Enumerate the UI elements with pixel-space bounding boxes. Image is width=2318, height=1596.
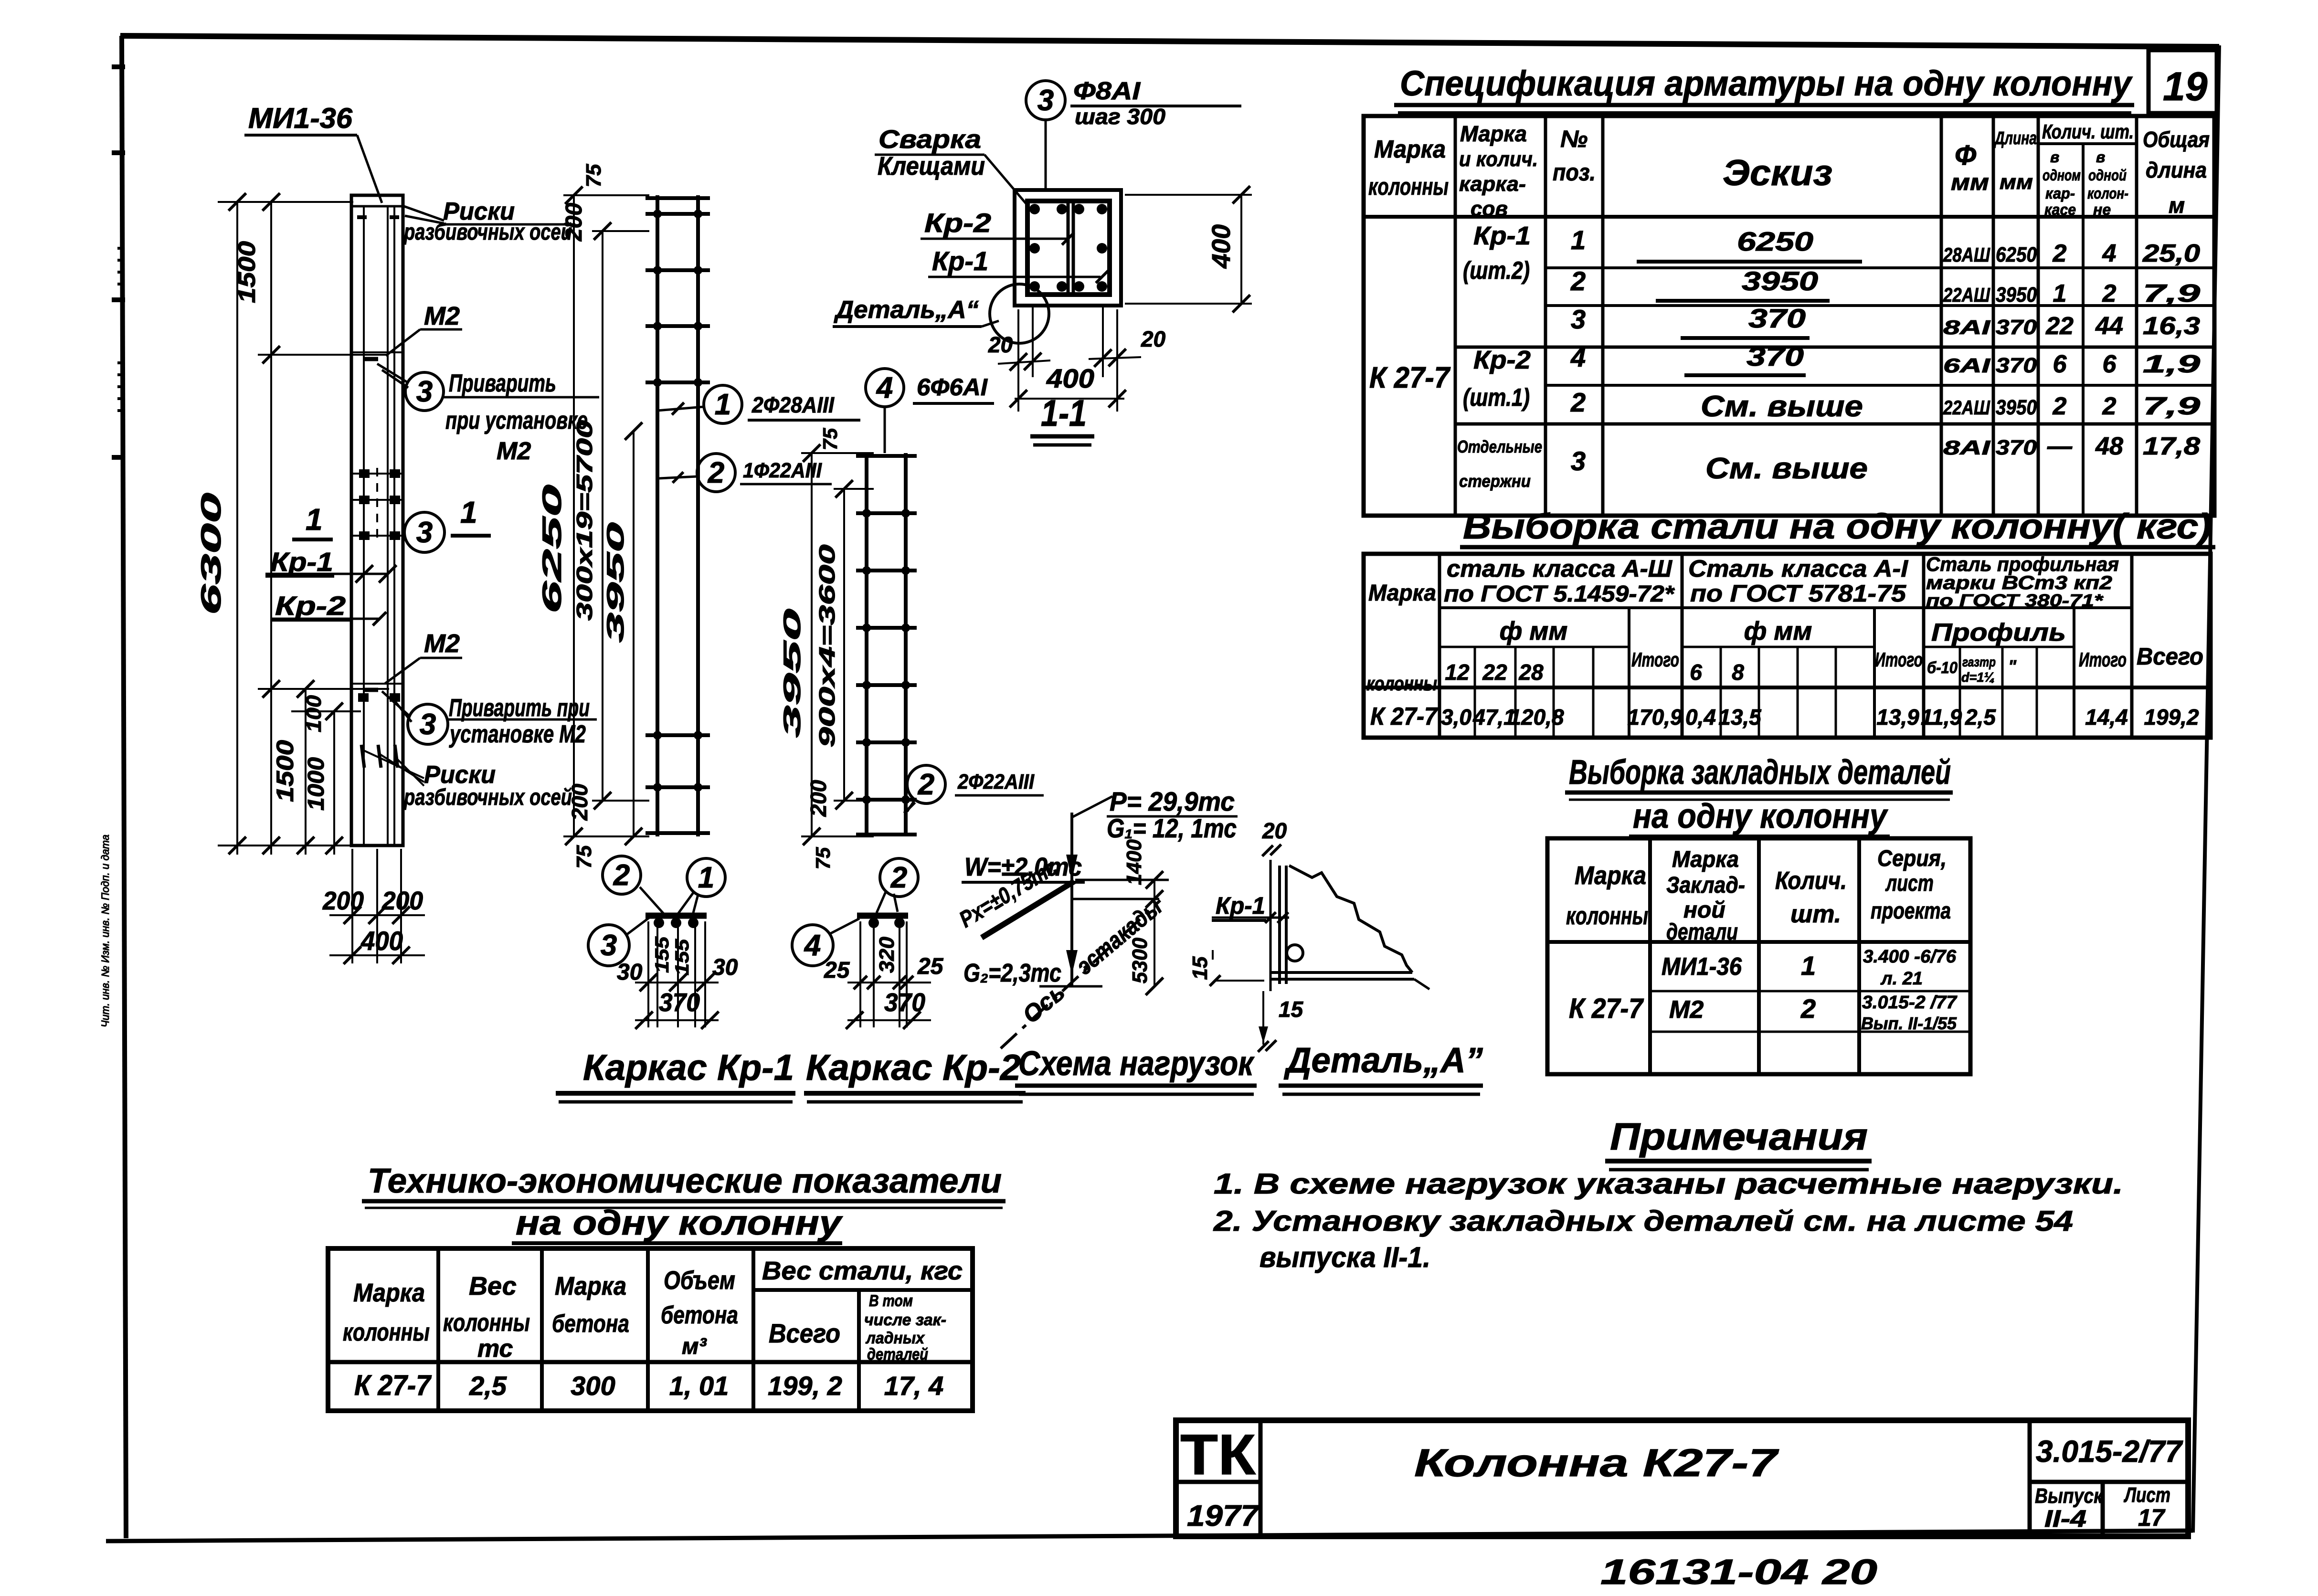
- svg-text:Примечания: Примечания: [1610, 1115, 1868, 1158]
- svg-text:4: 4: [2102, 240, 2117, 267]
- svg-text:3: 3: [416, 516, 433, 549]
- svg-text:Ф8АI: Ф8АI: [1073, 77, 1141, 105]
- svg-text:6: 6: [2103, 350, 2117, 378]
- svg-text:400: 400: [360, 926, 403, 956]
- svg-text:370: 370: [1746, 341, 1804, 371]
- svg-text:М2: М2: [1669, 996, 1704, 1024]
- svg-text:Сталь класса А-I: Сталь класса А-I: [1688, 555, 1908, 582]
- svg-text:(шт.2): (шт.2): [1463, 257, 1530, 285]
- svg-text:1,9: 1,9: [2143, 350, 2200, 378]
- svg-text:3.015-2 /77: 3.015-2 /77: [1862, 993, 1958, 1013]
- svg-text:400: 400: [1046, 363, 1094, 393]
- svg-text:199, 2: 199, 2: [768, 1371, 842, 1401]
- svg-text:400: 400: [1207, 224, 1236, 269]
- svg-text:3: 3: [416, 375, 433, 408]
- svg-text:Каркас Кр-2: Каркас Кр-2: [806, 1047, 1021, 1088]
- svg-text:ладных: ладных: [865, 1329, 925, 1347]
- svg-text:1: 1: [306, 502, 323, 537]
- svg-text:(шт.1): (шт.1): [1463, 384, 1530, 412]
- svg-text:2: 2: [708, 456, 724, 489]
- svg-text:Вып. II-1/55: Вып. II-1/55: [1861, 1014, 1957, 1033]
- svg-text:": ": [2008, 656, 2017, 676]
- svg-text:300x19=5700: 300x19=5700: [572, 420, 597, 621]
- svg-text:Деталь„А“: Деталь„А“: [834, 296, 979, 324]
- svg-text:4: 4: [804, 929, 821, 962]
- svg-text:№: №: [1560, 126, 1588, 152]
- svg-text:370: 370: [659, 988, 700, 1017]
- svg-text:Выборка закладных деталей: Выборка закладных деталей: [1569, 753, 1951, 792]
- svg-text:числе зак-: числе зак-: [864, 1311, 946, 1329]
- svg-text:1500: 1500: [272, 740, 298, 802]
- svg-text:48: 48: [2095, 433, 2123, 460]
- svg-text:6300: 6300: [196, 493, 227, 615]
- svg-text:шаг 300: шаг 300: [1075, 104, 1165, 129]
- svg-text:—: —: [2047, 433, 2073, 460]
- svg-text:11,9: 11,9: [1921, 705, 1962, 729]
- svg-text:Вес: Вес: [469, 1272, 517, 1300]
- svg-text:155: 155: [672, 939, 693, 975]
- svg-text:Марка: Марка: [555, 1272, 626, 1300]
- svg-text:К 27-7: К 27-7: [354, 1369, 432, 1401]
- svg-text:2: 2: [2053, 392, 2067, 420]
- svg-text:поз.: поз.: [1553, 159, 1596, 186]
- svg-text:14,4: 14,4: [2085, 705, 2128, 729]
- svg-text:Выборка стали на одну: Выборка стали на одну колонну( кгс): [1463, 507, 2212, 546]
- svg-text:3950: 3950: [779, 609, 805, 738]
- svg-text:1: 1: [715, 388, 731, 421]
- svg-text:Объем: Объем: [664, 1266, 735, 1295]
- svg-text:Технико-экономические показат: Технико-экономические показатели: [368, 1162, 1002, 1200]
- svg-text:370: 370: [1996, 316, 2037, 339]
- svg-text:200: 200: [806, 780, 831, 817]
- svg-text:2: 2: [2102, 280, 2117, 307]
- svg-text:детали: детали: [1666, 920, 1738, 945]
- svg-text:Итого: Итого: [2079, 648, 2127, 671]
- svg-text:Спецификация арматуры на од: Спецификация арматуры на одну колонну: [1400, 63, 2133, 103]
- svg-text:Кр-2: Кр-2: [924, 208, 991, 238]
- svg-text:3950: 3950: [602, 522, 629, 643]
- svg-text:28АШ: 28АШ: [1943, 243, 1990, 266]
- svg-text:К 27-7: К 27-7: [1370, 703, 1438, 730]
- svg-text:3950: 3950: [1742, 266, 1818, 296]
- svg-text:200: 200: [322, 887, 364, 915]
- svg-text:Каркас Кр-1: Каркас Кр-1: [583, 1047, 794, 1088]
- svg-text:Серия,: Серия,: [1877, 846, 1947, 871]
- svg-text:3: 3: [1571, 446, 1586, 476]
- svg-text:шт.: шт.: [1790, 900, 1841, 928]
- svg-text:мм: мм: [1951, 170, 1989, 195]
- svg-text:1Ф22АIII: 1Ф22АIII: [743, 459, 822, 482]
- svg-text:К 27-7: К 27-7: [1369, 361, 1450, 394]
- svg-text:сов: сов: [1471, 197, 1508, 221]
- svg-text:2Ф28АIII: 2Ф28АIII: [751, 392, 835, 417]
- svg-text:Всего: Всего: [2137, 643, 2203, 670]
- svg-text:лист: лист: [1885, 871, 1934, 896]
- svg-text:370: 370: [1996, 436, 2037, 459]
- svg-text:120,8: 120,8: [1509, 705, 1564, 729]
- svg-text:II-4: II-4: [2044, 1505, 2086, 1532]
- svg-text:одном: одном: [2043, 167, 2081, 184]
- svg-text:44: 44: [2095, 312, 2123, 340]
- svg-text:6250: 6250: [537, 485, 567, 613]
- svg-text:по ГОСТ 5.1459-72*: по ГОСТ 5.1459-72*: [1444, 581, 1675, 607]
- svg-text:16,3: 16,3: [2143, 312, 2200, 340]
- svg-text:2: 2: [1800, 994, 1816, 1024]
- svg-text:3,0: 3,0: [1441, 705, 1471, 729]
- svg-text:Итого: Итого: [1631, 648, 1679, 671]
- svg-text:320: 320: [875, 936, 899, 973]
- svg-text:P= 29,9тс: P= 29,9тс: [1110, 786, 1235, 816]
- svg-text:3.015-2/77: 3.015-2/77: [2036, 1434, 2183, 1469]
- svg-text:одной: одной: [2088, 167, 2127, 184]
- svg-text:в: в: [2096, 148, 2105, 166]
- svg-text:25,0: 25,0: [2142, 240, 2200, 267]
- svg-text:Приварить при: Приварить при: [449, 694, 590, 722]
- svg-text:Кр-2: Кр-2: [275, 591, 346, 621]
- svg-text:Марка: Марка: [1460, 121, 1527, 146]
- svg-text:Эскиз: Эскиз: [1723, 153, 1832, 193]
- svg-text:1: 1: [460, 495, 477, 529]
- svg-text:1: 1: [1571, 225, 1586, 255]
- svg-text:Профиль: Профиль: [1931, 619, 2066, 646]
- svg-text:выпуска II-1.: выпуска II-1.: [1260, 1241, 1430, 1273]
- svg-text:8АI: 8АI: [1943, 316, 1991, 338]
- svg-text:ф мм: ф мм: [1744, 617, 1812, 645]
- svg-text:Кр-2: Кр-2: [1473, 346, 1531, 374]
- svg-text:Колонна К27-7: Колонна К27-7: [1414, 1441, 1779, 1485]
- svg-text:колонны: колонны: [1368, 173, 1449, 200]
- svg-text:2: 2: [1570, 387, 1586, 417]
- svg-text:20: 20: [988, 332, 1013, 357]
- svg-text:колонны: колонны: [443, 1309, 530, 1337]
- svg-text:Марка: Марка: [1368, 581, 1436, 606]
- svg-text:170,9: 170,9: [1627, 705, 1683, 729]
- svg-text:Итого: Итого: [1875, 648, 1923, 671]
- svg-text:Марка: Марка: [1575, 861, 1646, 890]
- svg-text:1400: 1400: [1122, 839, 1146, 885]
- svg-text:75: 75: [572, 845, 596, 868]
- svg-text:22: 22: [2045, 312, 2074, 340]
- svg-text:газтр: газтр: [1962, 655, 1996, 669]
- svg-text:Колич. шт.: Колич. шт.: [2042, 120, 2134, 143]
- svg-text:См. выше: См. выше: [1705, 452, 1868, 485]
- svg-text:бетона: бетона: [661, 1301, 738, 1329]
- svg-text:G₁= 12, 1тс: G₁= 12, 1тс: [1107, 813, 1237, 843]
- svg-text:и колич.: и колич.: [1459, 148, 1538, 171]
- svg-text:370: 370: [1748, 303, 1806, 333]
- svg-text:17,8: 17,8: [2143, 433, 2200, 460]
- svg-text:8АI: 8АI: [1943, 436, 1991, 459]
- svg-text:6250: 6250: [1737, 226, 1813, 256]
- svg-text:Колич.: Колич.: [1775, 867, 1847, 895]
- svg-text:длина: длина: [2146, 158, 2207, 182]
- svg-text:2: 2: [1570, 266, 1586, 296]
- svg-text:22АШ: 22АШ: [1943, 284, 1990, 306]
- svg-text:1. В схеме нагрузок указа: 1. В схеме нагрузок указаны расчетные на…: [1214, 1168, 2123, 1200]
- svg-text:Выпуск: Выпуск: [2035, 1484, 2104, 1508]
- svg-text:л. 21: л. 21: [1880, 969, 1923, 989]
- svg-text:2Ф22АIII: 2Ф22АIII: [957, 770, 1035, 793]
- svg-text:колонны: колонны: [1566, 902, 1648, 930]
- svg-text:по ГОСТ 380-71*: по ГОСТ 380-71*: [1926, 591, 2104, 610]
- svg-text:не: не: [2093, 201, 2111, 218]
- svg-text:кар-: кар-: [2045, 185, 2075, 202]
- svg-text:3.400 -6/76: 3.400 -6/76: [1863, 947, 1957, 967]
- svg-text:Клещами: Клещами: [878, 152, 985, 180]
- svg-text:2: 2: [2053, 240, 2067, 267]
- svg-text:3: 3: [1571, 304, 1586, 334]
- svg-text:тс: тс: [477, 1335, 513, 1363]
- svg-text:16131-04 20: 16131-04 20: [1600, 1552, 1877, 1592]
- svg-text:разбивочных осей: разбивочных осей: [403, 785, 572, 810]
- svg-text:370: 370: [884, 988, 925, 1017]
- svg-text:См. выше: См. выше: [1701, 390, 1863, 423]
- svg-text:Приварить: Приварить: [449, 370, 556, 397]
- svg-text:3950: 3950: [1996, 283, 2037, 307]
- svg-text:28: 28: [1518, 660, 1544, 685]
- svg-text:22: 22: [1482, 660, 1507, 685]
- svg-text:Марка: Марка: [1374, 136, 1446, 163]
- svg-text:8: 8: [1732, 660, 1744, 685]
- svg-text:Лист: Лист: [2124, 1483, 2170, 1507]
- svg-text:Чит. инв. № Изм. инв.: Чит. инв. № Изм. инв. № Подп. и дата: [99, 835, 111, 1027]
- svg-text:22АШ: 22АШ: [1943, 396, 1990, 419]
- svg-text:Кр-1: Кр-1: [932, 246, 988, 276]
- svg-text:7,9: 7,9: [2143, 392, 2200, 420]
- svg-text:ф мм: ф мм: [1500, 617, 1568, 645]
- svg-text:3: 3: [420, 708, 436, 741]
- svg-text:30: 30: [712, 955, 738, 980]
- svg-text:бетона: бетона: [552, 1310, 629, 1338]
- svg-text:15: 15: [1188, 956, 1212, 980]
- svg-text:установке М2: установке М2: [449, 720, 586, 748]
- svg-text:Общая: Общая: [2143, 127, 2210, 152]
- svg-text:Сварка: Сварка: [879, 125, 981, 154]
- svg-text:Отдельные: Отдельные: [1457, 437, 1542, 456]
- svg-text:Марка: Марка: [1672, 847, 1739, 872]
- svg-text:К 27-7: К 27-7: [1569, 993, 1644, 1024]
- svg-text:3: 3: [1037, 84, 1054, 117]
- svg-text:13,5: 13,5: [1718, 705, 1762, 729]
- svg-text:15: 15: [1279, 997, 1304, 1022]
- svg-text:Кр-1: Кр-1: [1216, 892, 1265, 919]
- svg-text:В том: В том: [869, 1292, 913, 1310]
- svg-text:75: 75: [582, 164, 605, 187]
- svg-text:проекта: проекта: [1871, 898, 1951, 924]
- svg-text:М2: М2: [497, 437, 531, 465]
- svg-text:1500: 1500: [233, 241, 260, 303]
- svg-text:разбивочных осей: разбивочных осей: [403, 220, 572, 245]
- svg-text:по ГОСТ 5781-75: по ГОСТ 5781-75: [1690, 580, 1906, 607]
- svg-text:М2: М2: [424, 302, 460, 330]
- svg-text:карка-: карка-: [1459, 172, 1526, 196]
- svg-text:Кр-1: Кр-1: [1473, 222, 1531, 250]
- svg-text:в: в: [2050, 148, 2059, 166]
- svg-text:Схема нагрузок: Схема нагрузок: [1018, 1045, 1255, 1083]
- svg-text:м: м: [2169, 193, 2185, 218]
- svg-text:колон-: колон-: [2087, 185, 2128, 202]
- svg-text:2: 2: [890, 861, 907, 894]
- svg-text:370: 370: [1996, 354, 2037, 377]
- svg-text:касе: касе: [2044, 201, 2076, 218]
- svg-text:3: 3: [601, 929, 617, 962]
- svg-text:1977: 1977: [1187, 1500, 1260, 1533]
- svg-text:1-1: 1-1: [1041, 392, 1087, 434]
- svg-text:17: 17: [2138, 1504, 2166, 1531]
- svg-text:200: 200: [567, 783, 592, 821]
- svg-text:М2: М2: [424, 629, 460, 658]
- svg-text:Деталь„А”: Деталь„А”: [1283, 1040, 1483, 1080]
- svg-text:Ф: Ф: [1955, 140, 1977, 171]
- svg-text:200: 200: [381, 887, 423, 915]
- svg-text:13,9: 13,9: [1876, 705, 1919, 729]
- svg-text:1: 1: [2053, 280, 2067, 307]
- svg-text:75: 75: [812, 847, 834, 869]
- svg-text:6Ф6АI: 6Ф6АI: [917, 374, 988, 401]
- svg-text:6: 6: [2053, 350, 2067, 378]
- svg-text:Длина: Длина: [1994, 128, 2037, 148]
- svg-text:2. Установку закладных дет: 2. Установку закладных деталей см. на ли…: [1213, 1205, 2073, 1237]
- svg-text:199,2: 199,2: [2144, 705, 2199, 729]
- svg-text:2: 2: [613, 859, 630, 892]
- svg-text:d=1¼: d=1¼: [1961, 670, 1995, 685]
- svg-text:12: 12: [1445, 660, 1470, 685]
- svg-text:25: 25: [824, 958, 850, 983]
- svg-text:1, 01: 1, 01: [669, 1371, 729, 1401]
- svg-text:4: 4: [876, 371, 893, 404]
- svg-text:Всего: Всего: [769, 1318, 840, 1348]
- svg-text:100: 100: [302, 695, 326, 732]
- svg-text:МИ1-36: МИ1-36: [1662, 953, 1742, 981]
- svg-text:сталь класса А-Ш: сталь класса А-Ш: [1447, 555, 1672, 582]
- svg-text:м³: м³: [682, 1334, 708, 1359]
- svg-text:1: 1: [698, 861, 714, 894]
- svg-text:Вес стали, кгс: Вес стали, кгс: [762, 1257, 963, 1285]
- svg-text:колонны: колонны: [1366, 672, 1437, 695]
- svg-text:Марка: Марка: [353, 1279, 425, 1307]
- svg-text:2: 2: [918, 768, 934, 801]
- svg-text:30: 30: [617, 960, 643, 985]
- svg-text:20: 20: [1141, 327, 1166, 351]
- svg-text:2,5: 2,5: [469, 1371, 507, 1401]
- svg-text:Заклад-: Заклад-: [1666, 873, 1745, 898]
- svg-text:900x4=3600: 900x4=3600: [815, 544, 839, 748]
- svg-text:6: 6: [1690, 660, 1702, 685]
- svg-text:на одну колонну: на одну колонну: [1633, 797, 1889, 835]
- svg-text:7,9: 7,9: [2143, 280, 2200, 307]
- svg-text:4: 4: [1570, 342, 1586, 372]
- svg-text:155: 155: [652, 936, 673, 973]
- svg-text:0,4: 0,4: [1685, 705, 1716, 729]
- svg-text:1000: 1000: [304, 757, 329, 811]
- svg-text:3950: 3950: [1996, 396, 2037, 419]
- svg-text:ТК: ТК: [1180, 1423, 1256, 1487]
- svg-text:б-10: б-10: [1927, 659, 1958, 677]
- svg-text:на одну колонну: на одну колонну: [516, 1204, 844, 1242]
- svg-text:20: 20: [1262, 818, 1287, 843]
- svg-text:6АI: 6АI: [1943, 354, 1991, 377]
- svg-text:стержни: стержни: [1459, 471, 1531, 491]
- svg-text:мм: мм: [2000, 170, 2033, 194]
- svg-text:колонны: колонны: [343, 1319, 430, 1346]
- svg-text:75: 75: [819, 428, 841, 450]
- svg-text:25: 25: [917, 954, 944, 979]
- svg-text:МИ1-36: МИ1-36: [248, 102, 353, 134]
- svg-text:деталей: деталей: [867, 1345, 928, 1363]
- svg-text:1: 1: [1801, 951, 1816, 981]
- svg-text:при установке: при установке: [445, 407, 588, 434]
- svg-text:Кр-1: Кр-1: [270, 547, 333, 577]
- svg-text:19: 19: [2163, 64, 2208, 109]
- svg-text:300: 300: [571, 1371, 615, 1401]
- svg-text:6250: 6250: [1996, 243, 2037, 266]
- svg-text:2,5: 2,5: [1965, 705, 1996, 729]
- svg-text:17, 4: 17, 4: [884, 1371, 944, 1401]
- svg-text:2: 2: [2102, 392, 2117, 420]
- svg-text:Сталь профильная: Сталь профильная: [1926, 553, 2119, 575]
- svg-text:5300: 5300: [1128, 937, 1152, 983]
